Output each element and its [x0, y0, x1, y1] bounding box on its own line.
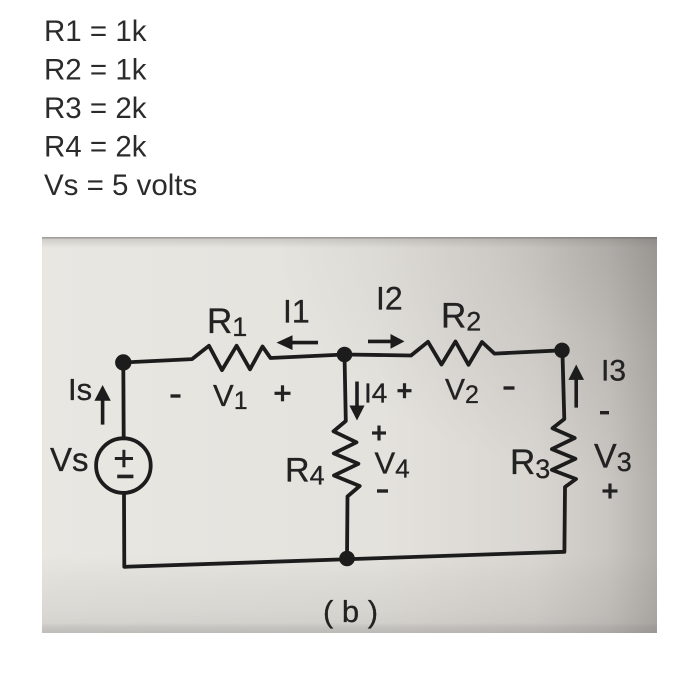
svg-text:I3: I3 — [601, 355, 626, 388]
svg-text:Vs = 5 volts: Vs = 5 volts — [44, 169, 197, 202]
svg-text:I1: I1 — [283, 294, 310, 330]
svg-text:I2: I2 — [376, 281, 403, 317]
svg-text:R4 = 2k: R4 = 2k — [44, 131, 147, 164]
svg-text:R2 = 1k: R2 = 1k — [44, 54, 147, 87]
svg-text:R3 = 2k: R3 = 2k — [44, 92, 147, 125]
svg-text:R1 = 1k: R1 = 1k — [44, 15, 147, 48]
svg-text:Vs: Vs — [50, 441, 89, 478]
svg-text:Is: Is — [68, 372, 92, 407]
svg-text:I4: I4 — [364, 378, 387, 409]
svg-text:( b ): ( b ) — [323, 594, 378, 629]
